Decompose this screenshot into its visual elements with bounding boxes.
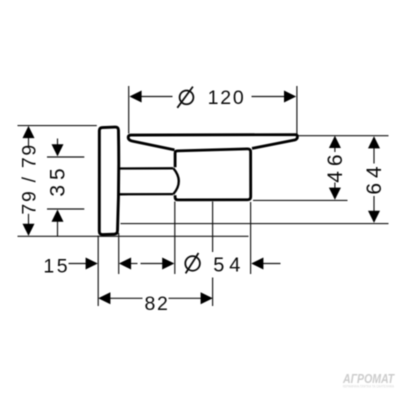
svg-text:79 / 79: 79 / 79 (18, 143, 40, 215)
svg-text:120: 120 (208, 87, 246, 109)
svg-text:46: 46 (324, 149, 347, 182)
svg-text:15: 15 (43, 255, 70, 277)
svg-text:54: 54 (213, 254, 245, 276)
svg-text:64: 64 (363, 161, 386, 194)
svg-text:82: 82 (145, 293, 170, 315)
svg-text:КЕРАМІЧНА ПЛИТКА ТА САНТЕХНІКА: КЕРАМІЧНА ПЛИТКА ТА САНТЕХНІКА (343, 383, 394, 388)
svg-text:35: 35 (47, 163, 70, 196)
